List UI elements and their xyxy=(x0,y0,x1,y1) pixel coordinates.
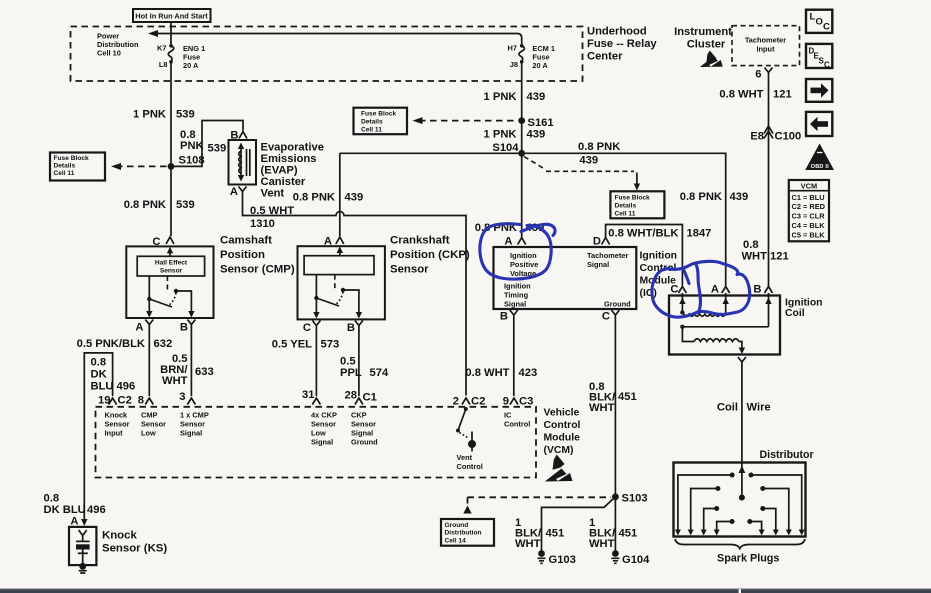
svg-text:C5 = BLK: C5 = BLK xyxy=(792,230,826,239)
svg-text:Sensor (CMP): Sensor (CMP) xyxy=(220,264,295,276)
svg-text:574: 574 xyxy=(370,367,389,379)
pin C of CMP xyxy=(152,236,174,248)
value label 0.8 WHT 121 (lower) xyxy=(742,239,789,263)
svg-text:O: O xyxy=(816,17,823,28)
svg-text:Control: Control xyxy=(544,420,581,431)
svg-text:Cell 14: Cell 14 xyxy=(445,537,467,544)
pin 19 C2 of VCM xyxy=(98,395,132,407)
svg-text:S103: S103 xyxy=(622,493,648,505)
coil primary winding xyxy=(680,310,725,316)
svg-text:3: 3 xyxy=(179,391,185,403)
svg-text:C: C xyxy=(602,311,610,323)
svg-text:Sensor: Sensor xyxy=(311,420,336,429)
svg-text:Vent: Vent xyxy=(261,188,285,200)
wire 0.8 PNK 439 branch down to CKP terminal A xyxy=(339,153,341,236)
distributor center feed with up arrow and rotor node xyxy=(739,463,746,501)
value label 1 PNK 439 (below S161) xyxy=(484,129,546,141)
svg-text:1847: 1847 xyxy=(687,228,712,240)
svg-text:C: C xyxy=(303,322,311,334)
value label 0.8 DK BLU 496 (upper) xyxy=(91,357,136,393)
label Instrument Cluster xyxy=(674,26,732,51)
pin A of ignition coil xyxy=(711,284,730,296)
svg-text:S161: S161 xyxy=(528,117,554,129)
icon LOC box xyxy=(806,10,832,33)
svg-text:PNK: PNK xyxy=(180,140,204,152)
wire dashed S104 to fuse block details box xyxy=(524,157,640,191)
svg-text:Input: Input xyxy=(105,429,124,438)
svg-text:J8: J8 xyxy=(510,60,518,69)
svg-text:439: 439 xyxy=(527,91,546,103)
value label 0.8 BLK/WHT 451 xyxy=(589,381,637,414)
svg-text:Timing: Timing xyxy=(504,291,529,300)
pin B of ignition coil xyxy=(753,284,772,296)
svg-text:Hall Effect: Hall Effect xyxy=(155,260,188,267)
camshaft position sensor CMP box xyxy=(126,246,213,318)
wire 0.8 DK BLU 496 jog (knock sensor to VCM pin 19) xyxy=(84,353,112,521)
coil secondary winding to output xyxy=(682,327,745,354)
svg-text:B: B xyxy=(753,284,761,296)
svg-text:Instrument: Instrument xyxy=(674,26,732,38)
wire 0.8 WHT 423 (ICM B to VCM pin 9) xyxy=(513,320,515,397)
svg-text:B: B xyxy=(500,311,508,323)
value label 0.5 PPL 574 xyxy=(340,356,389,380)
svg-text:Sensor: Sensor xyxy=(105,420,130,429)
value label 0.8 PNK 439 (bus) xyxy=(578,141,620,166)
wire bus to power distribution with left arrow xyxy=(151,34,522,46)
svg-text:S104: S104 xyxy=(492,142,519,154)
label Coil Wire xyxy=(717,402,771,414)
pin 2 C2 of VCM xyxy=(453,396,486,408)
svg-text:CMP: CMP xyxy=(141,411,157,420)
pin 3 of VCM xyxy=(179,391,195,405)
wire S108 down to CMP terminal C xyxy=(170,166,172,236)
svg-text:BLU: BLU xyxy=(91,381,114,393)
arrow into hall sensor xyxy=(167,247,173,256)
svg-text:Signal: Signal xyxy=(587,260,609,269)
svg-text:451: 451 xyxy=(619,527,638,539)
distributor cap wires left xyxy=(675,473,735,536)
svg-text:Canister: Canister xyxy=(261,176,306,188)
coil internal: A lead with up arrow xyxy=(723,296,729,314)
svg-text:Input: Input xyxy=(756,45,775,54)
svg-text:Low: Low xyxy=(311,429,326,438)
svg-text:451: 451 xyxy=(546,527,565,539)
svg-text:Fuse Block: Fuse Block xyxy=(54,155,90,162)
svg-text:C2: C2 xyxy=(118,395,132,407)
label IC Control xyxy=(504,411,530,429)
wire 0.8 BLK/WHT 451 (ICM C to S103) xyxy=(614,320,616,551)
fuse ENG 1 20A (K7/L8) xyxy=(157,43,205,69)
pin B of EVAP xyxy=(230,130,247,142)
svg-text:31: 31 xyxy=(302,389,314,401)
svg-text:Distribution: Distribution xyxy=(445,530,482,537)
svg-text:PPL: PPL xyxy=(340,367,362,379)
svg-text:439: 439 xyxy=(345,192,364,204)
ground distribution cell 14 box xyxy=(441,519,494,546)
svg-text:Ignition: Ignition xyxy=(640,251,678,262)
wire S103 branch to G103 xyxy=(542,497,616,551)
svg-text:C100: C100 xyxy=(775,131,802,143)
value label 0.5 PNK/BLK 632 xyxy=(77,338,173,350)
value label 1 BLK/WHT 451 (G103) xyxy=(515,517,564,550)
svg-text:496: 496 xyxy=(117,381,136,393)
fuse ECM 1 20A (H7/J8) xyxy=(508,43,555,69)
VCM delta emblem xyxy=(545,455,573,482)
svg-text:B: B xyxy=(347,322,355,334)
svg-text:A: A xyxy=(70,516,78,528)
svg-text:Signal: Signal xyxy=(351,429,373,438)
value label 0.8 PNK 539 (EVAP branch) xyxy=(180,129,226,155)
svg-text:Sensor: Sensor xyxy=(390,264,429,276)
fuse block details cell 11 box left xyxy=(50,153,105,181)
label Vent Control xyxy=(457,453,483,471)
fuse block details cell 11 box center xyxy=(610,191,664,218)
coil internal: B lead with up arrow xyxy=(765,296,771,327)
svg-text:0.8 PNK: 0.8 PNK xyxy=(680,191,722,203)
svg-text:S108: S108 xyxy=(179,155,205,167)
pin B of ICM xyxy=(500,310,518,323)
node Hot In Run And Start tag xyxy=(133,9,211,22)
svg-text:Knock: Knock xyxy=(102,530,137,542)
knock sensor KS xyxy=(69,527,96,565)
svg-text:573: 573 xyxy=(321,339,340,351)
node S103 junction xyxy=(612,493,648,505)
pin C of ICM xyxy=(602,310,619,323)
label Crankshaft Position (CKP) Sensor xyxy=(390,235,470,276)
value label 0.8 PNK 539 xyxy=(124,199,195,211)
ignition control module ICM box xyxy=(494,247,637,309)
wire 0.5 YEL 573 (CKP C to VCM pin 31) xyxy=(315,330,317,396)
svg-text:C: C xyxy=(823,22,830,33)
svg-text:Fuse Block: Fuse Block xyxy=(615,194,651,201)
label Evaporative Emissions (EVAP) Canister Vent xyxy=(261,142,324,200)
svg-text:Fuse -- Relay: Fuse -- Relay xyxy=(587,38,657,50)
label Knock Sensor Input xyxy=(105,411,130,438)
wire 0.8 PNK 439 bus S104 to ignition coil A xyxy=(340,153,726,286)
svg-text:B: B xyxy=(180,322,188,334)
svg-text:20 A: 20 A xyxy=(532,61,548,70)
label 1 x CMP Sensor Signal xyxy=(180,411,209,438)
pin A of ICM xyxy=(504,236,525,248)
svg-text:C: C xyxy=(670,284,678,296)
coil internal: C lead with up arrow xyxy=(679,296,685,314)
svg-text:0.8 WHT: 0.8 WHT xyxy=(465,367,509,379)
pin C of ignition coil xyxy=(670,284,686,296)
svg-text:Details: Details xyxy=(54,163,76,170)
node S108 junction xyxy=(168,155,205,170)
wire 0.8 WHT 121 (tach to coil B) xyxy=(768,78,770,287)
pin C of CKP xyxy=(303,321,320,335)
wire 0.5 PPL 574 (CKP B to VCM pin 28) xyxy=(358,330,360,396)
svg-text:0.8 WHT: 0.8 WHT xyxy=(719,89,763,101)
wire 0.5 BRN/WHT 633 (CMP B to VCM pin 3) xyxy=(190,329,192,396)
wire 1 PNK 439 from fuse ECM1 to S161/S104 xyxy=(521,62,523,154)
svg-text:0.8: 0.8 xyxy=(91,357,107,369)
svg-text:OBD II: OBD II xyxy=(811,164,830,170)
svg-text:Positive: Positive xyxy=(510,260,538,269)
svg-text:WHT: WHT xyxy=(589,402,615,414)
svg-text:1 PNK: 1 PNK xyxy=(484,91,517,103)
pin 6 of instrument cluster xyxy=(755,68,772,81)
coil output terminal xyxy=(738,357,746,367)
underhood fuse-relay center dashed box xyxy=(71,27,583,82)
wire dashed ground distribution line xyxy=(468,496,612,498)
EVAP canister vent solenoid xyxy=(229,140,257,185)
svg-text:A: A xyxy=(230,186,238,198)
svg-text:Center: Center xyxy=(587,51,623,63)
value label 1 PNK 439 (above S161) xyxy=(484,91,546,103)
svg-text:Fuse Block: Fuse Block xyxy=(361,110,397,117)
svg-text:539: 539 xyxy=(176,199,195,211)
svg-text:C1: C1 xyxy=(363,392,377,404)
svg-text:Cell 11: Cell 11 xyxy=(54,170,75,177)
wire from Hot tag down to fuse ENG1 xyxy=(170,22,172,46)
connector E8 C100 xyxy=(750,126,801,143)
svg-text:C4 = BLK: C4 = BLK xyxy=(792,221,826,230)
svg-text:Wire: Wire xyxy=(747,402,771,414)
wire dashed to fuse block details (left) xyxy=(116,165,167,167)
svg-text:539: 539 xyxy=(176,109,195,121)
svg-text:Ignition: Ignition xyxy=(785,297,823,308)
svg-text:Signal: Signal xyxy=(311,438,333,447)
pin 9 C3 of VCM xyxy=(503,396,534,408)
value label 0.8 PNK 439 (ICM A) xyxy=(475,222,544,234)
svg-text:1 PNK: 1 PNK xyxy=(484,129,517,141)
svg-text:121: 121 xyxy=(770,251,789,263)
label Ignition Positive Voltage xyxy=(510,251,538,278)
label Knock Sensor (KS) xyxy=(102,530,167,555)
svg-text:WHT: WHT xyxy=(742,251,768,263)
svg-text:Coil: Coil xyxy=(785,308,805,319)
svg-text:19: 19 xyxy=(98,395,110,407)
VCM dashed connector box xyxy=(96,407,537,478)
crankshaft position sensor CKP box xyxy=(298,246,385,319)
svg-text:WHT: WHT xyxy=(589,538,615,550)
pin 31 of VCM xyxy=(302,389,320,405)
arrow to ground distribution xyxy=(463,506,471,514)
svg-text:Sensor: Sensor xyxy=(160,268,183,275)
svg-text:Crankshaft: Crankshaft xyxy=(390,235,450,247)
pin A of EVAP xyxy=(230,186,247,198)
value label 0.5 BRN/WHT 633 xyxy=(160,353,214,387)
svg-text:Coil: Coil xyxy=(717,402,738,414)
label Camshaft Position Sensor (CMP) xyxy=(220,235,295,276)
footer bar xyxy=(0,588,931,589)
svg-text:632: 632 xyxy=(154,338,173,350)
value label 0.8 WHT 121 (upper) xyxy=(719,89,791,101)
svg-text:WHT: WHT xyxy=(515,538,541,550)
wire 0.5 PNK/BLK 632 (CMP A to VCM pin 8) xyxy=(148,329,150,396)
svg-text:(IC): (IC) xyxy=(640,288,657,299)
svg-text:C1 = BLU: C1 = BLU xyxy=(792,193,825,202)
fuse block details cell 11 box middle-top xyxy=(354,108,408,135)
instrument cluster delta emblem xyxy=(700,51,723,68)
svg-text:2: 2 xyxy=(453,396,459,408)
label 4x CKP Sensor Low Signal xyxy=(311,411,337,447)
svg-text:1 PNK: 1 PNK xyxy=(133,109,166,121)
value label 0.5 WHT 1310 xyxy=(250,205,294,230)
svg-text:439: 439 xyxy=(527,129,546,141)
svg-text:0.8 PNK: 0.8 PNK xyxy=(124,199,166,211)
svg-text:K7: K7 xyxy=(157,43,166,52)
svg-text:0.5 PNK/BLK: 0.5 PNK/BLK xyxy=(77,338,145,350)
svg-text:Details: Details xyxy=(361,118,383,125)
annotation blue scribble around ignition coil C and A xyxy=(652,261,750,317)
ground at knock sensor xyxy=(79,563,87,573)
svg-text:L8: L8 xyxy=(159,60,168,69)
svg-text:H7: H7 xyxy=(508,43,517,52)
svg-text:Ground: Ground xyxy=(445,522,469,529)
pin A of CMP xyxy=(135,320,153,334)
svg-text:DK BLU: DK BLU xyxy=(44,504,86,516)
svg-text:0.8: 0.8 xyxy=(743,239,759,251)
vent control switch inside VCM xyxy=(456,407,476,452)
svg-text:Control: Control xyxy=(504,420,530,429)
svg-text:9: 9 xyxy=(503,396,509,408)
svg-text:20 A: 20 A xyxy=(183,61,199,70)
svg-text:Cell 11: Cell 11 xyxy=(615,210,636,217)
value label 0.8 DK BLU 496 (lower) xyxy=(44,493,106,516)
svg-text:Camshaft: Camshaft xyxy=(220,235,272,247)
svg-text:539: 539 xyxy=(208,142,227,154)
label Ignition Timing Signal xyxy=(504,282,531,309)
ground G104 xyxy=(611,550,650,566)
icon OBD II triangle xyxy=(805,144,834,171)
svg-text:633: 633 xyxy=(195,366,214,378)
svg-text:Control: Control xyxy=(457,462,483,471)
svg-text:A: A xyxy=(711,284,719,296)
svg-text:G103: G103 xyxy=(549,554,576,566)
svg-text:Position: Position xyxy=(220,249,265,261)
svg-text:Cluster: Cluster xyxy=(687,39,726,51)
wire branch S108 to EVAP terminal B xyxy=(171,121,243,167)
ignition coil box xyxy=(669,296,780,355)
wire dashed S161 to fuse block details box xyxy=(419,120,517,122)
svg-text:439: 439 xyxy=(730,191,749,203)
svg-text:0.8 PNK: 0.8 PNK xyxy=(293,192,335,204)
svg-text:Vehicle: Vehicle xyxy=(544,408,580,419)
svg-text:439: 439 xyxy=(579,155,598,167)
svg-text:Details: Details xyxy=(615,202,637,209)
svg-text:496: 496 xyxy=(87,504,106,516)
wire coil wire to distributor xyxy=(741,367,743,463)
svg-text:VCM: VCM xyxy=(801,182,817,191)
svg-text:IC: IC xyxy=(504,411,512,420)
svg-text:(VCM): (VCM) xyxy=(544,445,574,456)
svg-text:1 x CMP: 1 x CMP xyxy=(180,411,209,420)
svg-text:Hot In Run And Start: Hot In Run And Start xyxy=(135,12,208,21)
wire 0.5 WHT 1310 from EVAP A to VCM pin 2 (hop over PNK 439 wire) xyxy=(243,196,467,396)
ground G103 xyxy=(538,550,576,566)
svg-text:C: C xyxy=(824,61,830,70)
svg-text:4x CKP: 4x CKP xyxy=(311,411,337,420)
wire S104 down to ICM terminal A xyxy=(521,153,523,237)
pin A of CKP xyxy=(324,236,344,248)
svg-text:Position (CKP): Position (CKP) xyxy=(390,249,470,261)
svg-text:Sensor: Sensor xyxy=(141,420,166,429)
value label 0.8 WHT/BLK 1847 xyxy=(608,228,711,240)
svg-text:Signal: Signal xyxy=(504,300,526,309)
svg-text:Tachometer: Tachometer xyxy=(745,36,786,45)
svg-text:Signal: Signal xyxy=(180,429,202,438)
svg-text:Underhood: Underhood xyxy=(587,26,647,38)
svg-text:Evaporative: Evaporative xyxy=(261,142,324,154)
svg-text:Ground: Ground xyxy=(604,300,631,309)
arrow into CKP element xyxy=(337,246,343,255)
svg-text:Sensor: Sensor xyxy=(351,420,376,429)
svg-text:E8: E8 xyxy=(750,131,764,143)
svg-text:A: A xyxy=(135,322,143,334)
svg-text:Tachometer: Tachometer xyxy=(587,251,628,260)
wire PNK 539 from fuse to S108 xyxy=(170,62,172,167)
svg-text:Cell 10: Cell 10 xyxy=(97,49,121,58)
svg-text:1310: 1310 xyxy=(250,218,275,230)
svg-text:0.8: 0.8 xyxy=(44,493,60,505)
svg-text:C2 = RED: C2 = RED xyxy=(792,202,826,211)
distributor cap wires right xyxy=(747,473,804,536)
value label 0.8 PNK 439 (CKP branch) xyxy=(293,192,363,204)
label Vehicle Control Module (VCM) xyxy=(544,408,581,457)
svg-text:423: 423 xyxy=(519,367,538,379)
label Tachometer Signal xyxy=(587,251,628,269)
label CMP Sensor Low xyxy=(141,411,166,438)
svg-text:Ignition: Ignition xyxy=(504,282,531,291)
pin 8 of VCM xyxy=(138,395,154,407)
value label 1 PNK 539 xyxy=(133,109,195,121)
svg-text:CKP: CKP xyxy=(351,411,367,420)
CKP internal switch xyxy=(313,275,362,319)
svg-text:Ground: Ground xyxy=(351,438,378,447)
svg-text:Vent: Vent xyxy=(457,453,473,462)
CMP internal switch xyxy=(146,276,195,318)
svg-text:6: 6 xyxy=(755,69,761,81)
spark plugs brace xyxy=(675,539,805,549)
label Underhood Fuse-Relay Center xyxy=(587,26,657,63)
svg-text:Emissions: Emissions xyxy=(261,153,317,165)
svg-text:G104: G104 xyxy=(622,554,650,566)
svg-text:D: D xyxy=(593,236,601,248)
pin 28 C1 of VCM xyxy=(345,390,377,405)
svg-text:28: 28 xyxy=(345,390,357,402)
icon DESC box xyxy=(806,44,832,70)
svg-text:Sensor (KS): Sensor (KS) xyxy=(102,543,167,555)
hall effect sensor inner box xyxy=(137,256,204,276)
annotation blue loop around ICM ignition positive voltage xyxy=(480,224,555,279)
coil node to B lead xyxy=(680,325,768,329)
pin D of ICM xyxy=(593,236,610,248)
tachometer input dashed box xyxy=(732,26,800,66)
svg-text:121: 121 xyxy=(773,89,792,101)
svg-text:451: 451 xyxy=(618,391,637,403)
svg-text:Ignition: Ignition xyxy=(510,251,537,260)
svg-text:C3: C3 xyxy=(519,396,533,408)
label CKP Sensor Signal Ground xyxy=(351,411,378,447)
CKP inner element box xyxy=(304,256,374,275)
svg-text:8: 8 xyxy=(138,395,144,407)
label Ignition Coil xyxy=(785,297,823,319)
svg-text:DK: DK xyxy=(91,369,107,381)
svg-text:0.5 WHT: 0.5 WHT xyxy=(250,205,294,217)
icon left arrow box xyxy=(806,112,832,136)
svg-text:0.5: 0.5 xyxy=(340,356,356,368)
svg-text:0.8 WHT/BLK: 0.8 WHT/BLK xyxy=(608,228,678,240)
svg-text:0.8 PNK: 0.8 PNK xyxy=(578,141,620,153)
label Power Distribution Cell 10 xyxy=(97,32,139,58)
label Ignition Control Module (IC) xyxy=(640,251,678,300)
svg-text:WHT: WHT xyxy=(162,375,188,387)
value label 0.5 YEL 573 xyxy=(272,339,339,351)
pin B of CKP xyxy=(347,321,363,335)
